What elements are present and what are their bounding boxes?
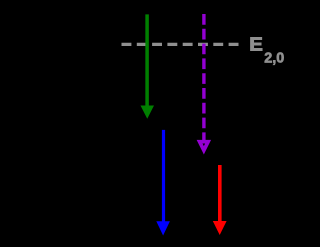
green transition arrow (solid): [141, 14, 155, 118]
energy level dashed line E2,0: [122, 43, 239, 46]
svg-text:2,0: 2,0: [264, 50, 284, 66]
label E_2,0: [249, 33, 284, 66]
blue transition arrow (solid): [156, 130, 170, 236]
svg-text:E: E: [249, 33, 263, 54]
purple transition arrow (dashed): [200, 14, 209, 150]
red transition arrow (solid): [213, 165, 227, 235]
